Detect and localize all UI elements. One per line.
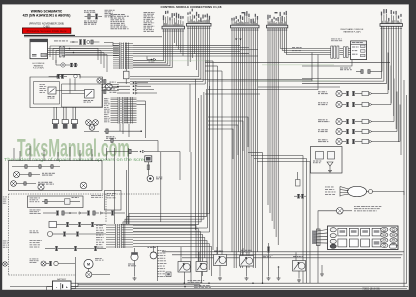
small fuse square right of contact column — [166, 272, 171, 277]
relay K3 — [214, 255, 227, 266]
battery positive wire — [71, 283, 78, 286]
dashed box right edge segment — [105, 194, 107, 222]
upper nest bus combs to engine ladder — [121, 86, 210, 225]
long vertical x161 — [160, 152, 162, 222]
glow plugs row — [30, 259, 76, 267]
vertical connector ladder L1b — [127, 43, 129, 70]
right connector pair row y70 — [340, 26, 382, 73]
switch symbol S2 mid-left — [84, 90, 95, 103]
ignition switch component — [148, 246, 157, 259]
right console harness label — [341, 28, 364, 33]
wires into right console box — [292, 46, 351, 58]
junction dots on bottom rails — [184, 282, 263, 287]
center long vertical x191 — [190, 152, 192, 283]
right component row 1 (y93) — [318, 90, 388, 96]
fuel gauge label rows — [30, 240, 42, 247]
wire labels left of ladder L2 — [104, 98, 110, 122]
alternator row — [30, 210, 126, 216]
harness bundle entering fuse box — [312, 229, 328, 246]
fuel solenoid connector — [263, 243, 273, 280]
vertical connector ladder L2 — [111, 97, 137, 124]
vertical connector ladder L3 bottom-left — [106, 224, 133, 248]
battery ground wire — [46, 287, 53, 293]
fuel sender row wire — [45, 246, 106, 250]
bottom trunk nest stack — [133, 226, 211, 277]
dashed box left edge — [8, 194, 10, 275]
battery — [53, 278, 72, 292]
comb C8 tiny designator — [275, 12, 278, 13]
wires right of ladder L2 with corner down — [137, 101, 146, 138]
verticals joining ladder L2 to L3 — [115, 148, 129, 224]
legend list — [111, 14, 129, 29]
switch contact label column — [158, 246, 167, 281]
right relay box y148 — [311, 147, 343, 174]
long trunk y62.7 to comb E — [205, 62, 390, 64]
bottom rail wire 1 — [63, 282, 407, 284]
wires left section into ladder L1 — [50, 46, 119, 63]
connector comb B (P-8) — [187, 9, 212, 29]
labels above console connectors — [331, 39, 342, 42]
wire bundle below comb C8 — [268, 28, 331, 245]
svg-text:+: + — [66, 285, 68, 289]
svg-text:BATTERY: BATTERY — [57, 278, 67, 281]
fuel sender symbol pair with labels — [84, 10, 102, 25]
console lower row with sensor circle — [56, 60, 78, 67]
LH console harness label — [32, 63, 45, 69]
nested corner bundle center-left — [208, 117, 248, 159]
relay K4 (glow plug relay) — [240, 256, 254, 267]
center wire row y140.5 — [104, 139, 158, 152]
wire bundle below comb E — [302, 26, 401, 155]
vertical connector ladder L2b — [126, 97, 132, 124]
bottom center part number text — [194, 285, 211, 288]
small sensor right-center — [296, 172, 301, 186]
trunk wires from ladder L1 to center — [133, 45, 258, 56]
scan border bottom band — [0, 290, 416, 297]
vertical connector ladder L1 — [113, 43, 133, 70]
svg-text:P-2 & P-8(F): P-2 & P-8(F) — [33, 68, 44, 70]
bottom rail wire 3 — [63, 288, 407, 290]
wire labels left of ladder L3 — [96, 225, 104, 248]
indicator circle component left of ladder — [104, 83, 119, 90]
title block WIRING SCHEMATIC 425 — [23, 10, 71, 29]
lights box lower-left — [9, 161, 103, 191]
connector comb C1 control module — [231, 11, 260, 30]
svg-text:425 (S/N A1HW11001 & ABOVE): 425 (S/N A1HW11001 & ABOVE) — [23, 14, 71, 18]
connector row above console — [54, 40, 99, 45]
light switch symbol S1 — [48, 87, 57, 99]
lights box rows — [11, 165, 60, 187]
fuel shutoff solenoid label — [188, 280, 205, 283]
horn oval component — [325, 186, 404, 196]
wire corner below right console box — [208, 53, 312, 82]
wire label column for connector P-2 — [144, 12, 155, 32]
connector component left below ladder L2 — [104, 129, 141, 139]
solenoid inline connector — [147, 165, 149, 175]
left margin glow circle — [3, 262, 7, 266]
lamp circles cluster bottom of loop — [84, 120, 99, 132]
wires descending from loop to engine connector blocks — [54, 107, 75, 120]
wires inside loop — [56, 79, 85, 94]
loop inner box left — [34, 82, 60, 105]
loop top connecting verticals — [57, 75, 80, 79]
wire bundle below comb B — [130, 26, 210, 232]
connector comb A (P-2) — [162, 11, 185, 32]
sensor circle below solenoid — [147, 175, 162, 181]
wires from LH console box to multi-connector — [48, 47, 108, 72]
left margin text column2 — [3, 241, 9, 248]
comb C1 tiny designator — [242, 12, 245, 13]
fuse and relay box — [328, 226, 399, 250]
rear work light component — [318, 206, 381, 283]
scan artifact green streaks — [150, 60, 340, 82]
relay K5 — [293, 261, 306, 272]
center vertical trunk group 2 — [263, 153, 311, 284]
wire from console box down — [302, 60, 352, 66]
scan border left band — [0, 0, 2, 297]
console bottom row connectors — [49, 74, 78, 78]
svg-text:(PRINTED NOVEMBER 2008): (PRINTED NOVEMBER 2008) — [29, 22, 64, 26]
battery output wires to right — [78, 285, 200, 287]
right component row 2 (y104) — [318, 101, 391, 107]
rear harness box — [28, 196, 84, 208]
corner bends comb A wires to ladder rows — [133, 43, 172, 68]
connector comb E right console P-10 — [380, 9, 403, 29]
starter motor — [84, 258, 104, 272]
harness loop outline mid-left — [30, 75, 103, 108]
svg-text:HARNESS P-10(F): HARNESS P-10(F) — [343, 30, 360, 33]
small box component under ladder L1 — [124, 69, 130, 84]
long horizontal trunk y87 — [258, 86, 340, 88]
center vertical trunk group 1 — [205, 61, 222, 258]
connector block row (dark plugs) — [52, 120, 77, 129]
long horizontal trunk y94 — [205, 93, 260, 95]
center connector and arrow y150 — [107, 148, 181, 180]
right edge vertical rails — [404, 80, 407, 287]
connector comb C8 control module — [267, 11, 288, 31]
inner harness outline — [62, 84, 103, 107]
right console harness box — [351, 41, 367, 60]
key switch symbol — [128, 155, 138, 280]
dashed box bottom edge — [9, 274, 77, 276]
engine harness label — [91, 195, 103, 198]
wire from title row to ladder — [104, 43, 119, 46]
horn circle symbol top of loop — [97, 78, 102, 83]
loop to ladder wires — [102, 85, 119, 91]
coolant temp row — [30, 231, 107, 237]
solenoid dark component center — [145, 156, 152, 165]
bottom rail wire 2 — [10, 286, 408, 288]
trunk lines above ladder L2 — [190, 79, 196, 230]
wires upward from lights box — [14, 146, 92, 161]
loop inner label rows — [40, 84, 47, 93]
svg-text:Printable Version Click Here: Printable Version Click Here — [27, 29, 67, 33]
ladder L3 extra bars — [123, 224, 125, 248]
printable version red button — [22, 28, 71, 34]
oil pressure row — [49, 222, 106, 228]
connector bars right-center — [294, 194, 306, 198]
right component row group lower — [318, 79, 400, 145]
vertical wire near battery — [71, 257, 76, 289]
relay K2 — [196, 262, 207, 272]
separator line under title — [24, 35, 162, 36]
component rows y82-94 with labels — [110, 82, 158, 95]
wires below ladder L2 — [120, 124, 129, 138]
svg-text:CONTROL MODULE CONNECTIONS C1,: CONTROL MODULE CONNECTIONS C1,C8 — [161, 5, 222, 9]
bottom long horizontals to right side — [162, 252, 404, 258]
connector bars column x104 — [104, 80, 106, 94]
headlight lamp symbols on box edge — [38, 182, 87, 190]
wire bundle below comb A — [164, 29, 184, 56]
sender legend text column — [105, 10, 115, 17]
nested corner bundle center right — [248, 153, 310, 162]
LH console harness box — [30, 39, 48, 59]
junction arrow with dot near ladder — [147, 57, 156, 63]
wire bundle below comb C1 descending to relays — [232, 28, 258, 268]
svg-text:M: M — [87, 263, 90, 267]
long horizontal trunk y79 — [150, 79, 312, 81]
starter solenoid circle — [86, 272, 110, 278]
ground symbols row bottom — [277, 265, 325, 280]
relay K1 — [178, 262, 191, 273]
dashed box top edge — [9, 193, 161, 195]
scan border top band — [0, 0, 416, 4]
left margin text column1 — [3, 197, 7, 204]
scan border right band — [409, 0, 416, 297]
small component box x104 y190 — [105, 191, 122, 211]
